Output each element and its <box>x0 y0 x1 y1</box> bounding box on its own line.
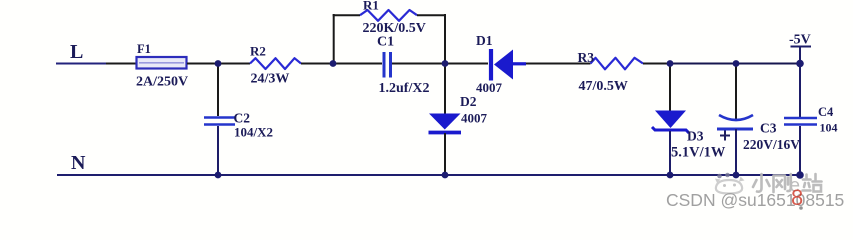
svg-text:24/3W: 24/3W <box>251 72 290 87</box>
svg-text:D1: D1 <box>476 33 493 48</box>
svg-text:104/X2: 104/X2 <box>234 125 273 140</box>
svg-text:220K/0.5V: 220K/0.5V <box>363 21 426 36</box>
svg-text:4007: 4007 <box>476 80 503 95</box>
svg-text:47/0.5W: 47/0.5W <box>579 79 628 94</box>
svg-text:104: 104 <box>820 121 838 135</box>
svg-text:4007: 4007 <box>461 111 488 126</box>
svg-text:C4: C4 <box>818 105 834 119</box>
svg-text:C3: C3 <box>760 121 777 136</box>
svg-text:N: N <box>71 152 86 174</box>
svg-text:1.2uf/X2: 1.2uf/X2 <box>379 81 430 96</box>
svg-text:-5V: -5V <box>789 33 811 48</box>
svg-text:C2: C2 <box>234 111 251 126</box>
svg-text:220V/16V: 220V/16V <box>743 137 800 152</box>
svg-text:L: L <box>70 41 83 63</box>
svg-text:D3: D3 <box>687 129 704 144</box>
svg-text:D2: D2 <box>460 94 477 109</box>
svg-text:R2: R2 <box>250 44 266 59</box>
svg-text:2A/250V: 2A/250V <box>136 75 188 90</box>
svg-text:F1: F1 <box>137 42 151 56</box>
svg-text:5.1V/1W: 5.1V/1W <box>671 145 726 161</box>
svg-text:CSDN @su165108515: CSDN @su165108515 <box>666 190 844 210</box>
svg-text:R3: R3 <box>578 50 595 65</box>
svg-text:C1: C1 <box>377 35 394 50</box>
svg-text:R1: R1 <box>363 0 379 13</box>
